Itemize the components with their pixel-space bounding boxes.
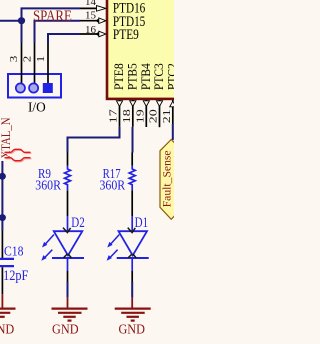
connector pin 1 stub bbox=[47, 43, 49, 84]
wire: D2 cathode to GND bbox=[67, 271, 69, 298]
svg-text:16: 16 bbox=[85, 24, 97, 36]
wire: net PTD16 / pin14 horizontal bbox=[22, 8, 81, 43]
ground GND under D1 bbox=[115, 298, 151, 321]
wire: SPARE net pin15 bbox=[35, 21, 81, 43]
svg-text:360R: 360R bbox=[100, 177, 126, 192]
wire: D1 cathode to GND bbox=[131, 271, 133, 298]
svg-text:I/O: I/O bbox=[28, 101, 46, 116]
svg-text:PTB4: PTB4 bbox=[139, 63, 153, 90]
connector pin 3 circle bbox=[16, 83, 25, 92]
svg-text:15: 15 bbox=[85, 9, 97, 21]
pin 19 stub bbox=[143, 100, 149, 127]
connector pin 1 square bbox=[43, 83, 53, 93]
node junction dot 1 bbox=[0, 173, 6, 180]
svg-text:PTE8: PTE8 bbox=[112, 63, 126, 90]
node junction on pin3 vertical bbox=[18, 17, 25, 24]
svg-text:GND: GND bbox=[0, 323, 14, 338]
svg-text:18: 18 bbox=[121, 109, 133, 124]
wire: pin18 to R17 bbox=[132, 127, 134, 153]
sheet background bbox=[0, 0, 174, 344]
ground GND under D2 bbox=[52, 298, 88, 321]
svg-text:PTE9: PTE9 bbox=[113, 27, 139, 43]
pin 21 stub bbox=[170, 100, 176, 124]
connector pin 3 stub bbox=[21, 43, 23, 84]
svg-text:Fault_Sense: Fault_Sense bbox=[160, 150, 174, 207]
svg-text:2: 2 bbox=[22, 56, 34, 63]
wire: XTAL_N vertical bbox=[1, 161, 3, 231]
capacitor C18 bbox=[0, 231, 14, 294]
connector J? I/O body bbox=[8, 74, 61, 98]
differential pair directive marker bbox=[5, 149, 32, 161]
ground GND under C18 bbox=[0, 294, 16, 321]
wire: pin17 to R9 bbox=[68, 127, 120, 153]
svg-text:PTB5: PTB5 bbox=[126, 63, 140, 90]
svg-text:20: 20 bbox=[148, 109, 160, 124]
svg-text:1: 1 bbox=[35, 56, 47, 63]
svg-text:14: 14 bbox=[85, 0, 97, 8]
LED D1 bbox=[107, 216, 149, 271]
svg-text:C18: C18 bbox=[4, 245, 24, 260]
svg-text:D2: D2 bbox=[71, 215, 85, 231]
svg-text:GND: GND bbox=[118, 323, 145, 338]
op-amp U? IC body (MCU, clipped at top/right) bbox=[107, 0, 187, 99]
resistor R17 bbox=[129, 153, 135, 217]
pin 14 stub bbox=[80, 6, 106, 12]
svg-text:GND: GND bbox=[52, 323, 79, 338]
wire: pin16 net bbox=[48, 34, 80, 43]
svg-text:19: 19 bbox=[135, 109, 147, 124]
svg-text:360R: 360R bbox=[35, 177, 61, 192]
pin 18 stub bbox=[130, 100, 136, 127]
svg-text:12pF: 12pF bbox=[3, 268, 28, 284]
svg-text:21: 21 bbox=[161, 109, 173, 123]
pin 20 stub bbox=[156, 100, 162, 127]
svg-text:17: 17 bbox=[108, 109, 120, 124]
resistor R9 bbox=[65, 153, 71, 217]
pin 16 stub bbox=[80, 31, 106, 37]
pin 15 stub bbox=[80, 18, 106, 24]
svg-text:D1: D1 bbox=[135, 215, 149, 231]
wire: pin21 to port bbox=[172, 124, 174, 140]
svg-text:PTC3: PTC3 bbox=[152, 63, 166, 90]
svg-text:PTC2: PTC2 bbox=[166, 63, 175, 90]
connector pin 2 circle bbox=[29, 83, 38, 92]
LED D2 bbox=[41, 216, 84, 271]
node junction dot 2 bbox=[0, 214, 6, 221]
wire: left stub into pin3 net bbox=[0, 20, 22, 22]
connector pin 2 stub bbox=[34, 43, 36, 84]
svg-text:SPARE: SPARE bbox=[33, 8, 72, 25]
pin 17 stub bbox=[116, 100, 122, 127]
svg-text:3: 3 bbox=[8, 55, 20, 62]
port Fault_Sense bbox=[160, 140, 183, 220]
